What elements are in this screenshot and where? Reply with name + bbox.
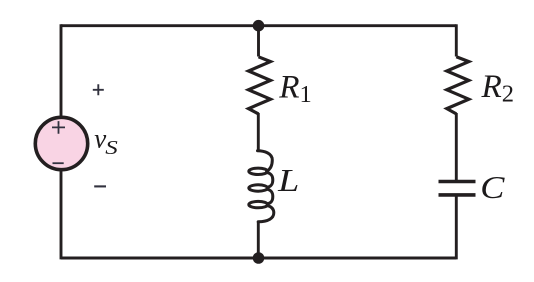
svg-text:R2: R2	[481, 68, 515, 108]
voltage source VS	[35, 117, 87, 169]
capacitor C	[439, 182, 476, 195]
wire middle branch lower (L to bottom node)	[257, 222, 260, 259]
wire right branch lower (C to bottom rail)	[455, 195, 458, 260]
label plus (source polarity, outside)	[93, 84, 104, 95]
label minus (source polarity, outside)	[94, 185, 106, 187]
wire left branch upper (top rail to source)	[60, 24, 63, 116]
wire right branch (R2 to C)	[455, 113, 458, 182]
wire middle branch (R1 to L)	[257, 113, 260, 152]
wire middle branch upper (top node to R1)	[257, 26, 260, 57]
wire top rail	[61, 24, 456, 27]
svg-text:R1: R1	[278, 68, 312, 108]
resistor R1	[249, 57, 271, 114]
svg-text:L: L	[277, 163, 299, 198]
node top junction	[253, 20, 265, 32]
svg-text:C: C	[480, 171, 505, 205]
inductor L	[249, 151, 274, 222]
node bottom junction	[253, 252, 265, 264]
wire bottom rail	[61, 257, 456, 260]
svg-text:S: S	[105, 136, 117, 158]
wire left branch lower (source to bottom rail)	[60, 171, 63, 259]
resistor R2	[447, 57, 469, 114]
wire right branch upper (top rail to R2)	[455, 24, 458, 56]
